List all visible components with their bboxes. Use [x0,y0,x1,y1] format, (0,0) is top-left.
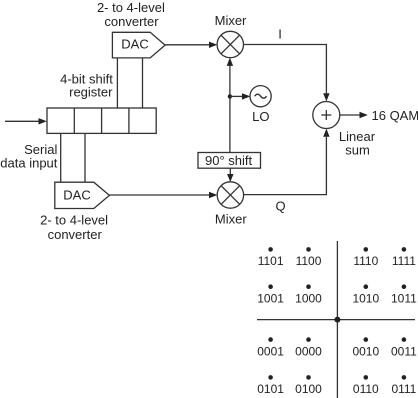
svg-text:0001: 0001 [257,344,284,358]
svg-text:I: I [278,26,282,41]
svg-text:1110: 1110 [353,254,378,268]
wire: DAC2 to mixer2 with arrow [109,192,217,198]
wire: mixer1 to summer (I path) [244,45,330,102]
constellation point 1000 [295,284,322,305]
svg-text:Mixer: Mixer [215,13,247,28]
mixer M1 (circle with X) [217,31,243,57]
svg-text:1011: 1011 [391,291,417,305]
svg-text:DAC: DAC [121,36,148,51]
constellation point 1010 [352,284,379,305]
label: Mixer (top) [215,13,247,28]
constellation point 0001 [257,337,284,358]
svg-text:0011: 0011 [391,344,417,358]
svg-text:1101: 1101 [258,254,284,268]
constellation point 1001 [257,284,284,305]
constellation point 0101 [257,375,284,396]
label: Linear sum line2 [345,143,370,158]
wire: register cell1 to DAC2 [60,133,62,182]
constellation point 1101 [258,247,284,268]
wire: mixer2 to summer (Q path) [244,129,330,195]
label: I [278,26,282,41]
svg-text:converter: converter [48,227,103,242]
wire: register cell3 to DAC1 [116,58,118,108]
wire: LO vertical to mixer1 (arrow up into mixer bottom) [227,58,233,153]
svg-text:0010: 0010 [352,344,379,358]
node: LO junction dot [228,94,232,98]
summer (circle with +) [313,102,340,129]
svg-text:90° shift: 90° shift [205,153,253,168]
label: 4-bit shift register line1 [60,72,113,87]
label: LO [252,109,269,124]
90 degree shift box [198,153,261,169]
constellation point 1011 [391,284,417,305]
svg-text:0101: 0101 [257,382,284,396]
svg-text:converter: converter [104,14,159,29]
wire: register cell2 to DAC2 [84,133,86,182]
label: bottom converter line1 [40,213,108,228]
label: Mixer (bottom) [215,212,247,227]
label: bottom converter line2 [48,227,103,242]
constellation point 0011 [391,337,417,358]
svg-text:0111: 0111 [391,382,416,396]
svg-text:register: register [69,85,113,100]
constellation point 0000 [295,337,322,358]
LO oscillator circle with sine [250,86,271,107]
label: top converter line1 [97,0,165,15]
svg-text:1000: 1000 [295,291,322,305]
label: 16 QAM [372,108,418,123]
constellation point 0110 [353,375,379,396]
label: Q [275,199,285,214]
svg-text:0110: 0110 [353,382,379,396]
wire: summer output arrow [340,112,368,118]
constellation point 1110 [353,247,378,268]
constellation horizontal axis [257,319,415,321]
DAC2 (bottom) pentagon [55,182,110,208]
wire: junction to LO with arrow [230,93,250,99]
constellation vertical axis [336,241,338,398]
svg-text:Q: Q [275,199,285,214]
svg-text:DAC: DAC [63,187,90,202]
svg-text:0100: 0100 [295,382,322,396]
constellation point 0100 [295,375,322,396]
svg-text:1010: 1010 [352,291,379,305]
label: top converter line2 [104,14,159,29]
constellation origin dot [334,317,340,323]
label: Linear sum line1 [339,129,376,144]
svg-text:sum: sum [345,143,370,158]
svg-text:Serial: Serial [24,142,57,157]
svg-text:16 QAM: 16 QAM [372,108,418,123]
mixer M2 (circle with X) [217,182,243,208]
constellation point 0111 [391,375,416,396]
label: 4-bit shift register line2 [69,85,113,100]
wire: DAC1 to mixer1 with arrow [165,42,217,48]
wire: 90 shift to mixer2 (arrow down) [227,168,233,182]
constellation point 1100 [296,247,322,268]
svg-text:0000: 0000 [295,344,322,358]
svg-text:LO: LO [252,109,269,124]
wire: register cell4 to DAC1 [142,58,144,108]
DAC1 (top) pentagon [112,32,165,58]
svg-text:2- to 4-level: 2- to 4-level [97,0,165,15]
constellation point 1111 [392,247,416,268]
wire: serial input arrow into shift register [5,118,47,124]
label: serial data input line2 [0,156,57,171]
constellation point 0010 [352,337,379,358]
svg-text:1111: 1111 [392,254,416,268]
svg-text:Mixer: Mixer [215,212,247,227]
shift register box [47,108,156,133]
svg-text:data input: data input [0,156,57,171]
svg-text:2- to 4-level: 2- to 4-level [40,213,108,228]
svg-text:1001: 1001 [257,291,284,305]
label: serial data input line1 [24,142,57,157]
svg-text:1100: 1100 [296,254,322,268]
